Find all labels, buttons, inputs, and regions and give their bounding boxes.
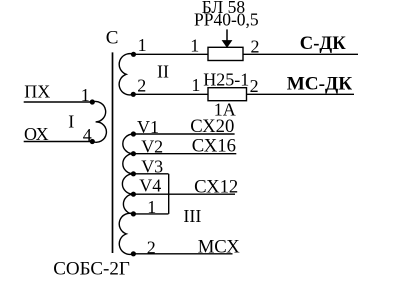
node ОХ-4 xyxy=(90,139,95,144)
svg-text:V2: V2 xyxy=(141,136,163,156)
svg-text:МСХ: МСХ xyxy=(198,237,241,258)
svg-text:2: 2 xyxy=(250,76,259,96)
wire V2 xyxy=(133,153,236,155)
node II-2 xyxy=(131,92,136,97)
svg-text:ПХ: ПХ xyxy=(24,82,50,102)
node V1 xyxy=(131,131,136,136)
svg-text:2: 2 xyxy=(251,36,260,56)
svg-text:Н25-1: Н25-1 xyxy=(203,70,249,90)
wire row1 left xyxy=(134,53,209,55)
svg-text:III: III xyxy=(183,206,201,226)
svg-text:I: I xyxy=(68,111,74,131)
svg-text:V1: V1 xyxy=(137,117,159,137)
node V2 xyxy=(131,151,136,156)
node II-1 xyxy=(131,52,136,57)
svg-text:1: 1 xyxy=(138,35,147,55)
arrow line xyxy=(226,29,228,41)
arrowhead xyxy=(222,40,233,48)
svg-text:СХ20: СХ20 xyxy=(190,116,234,137)
svg-text:1: 1 xyxy=(81,85,90,105)
fuse box БЛ58 xyxy=(208,47,243,60)
wire ОХ xyxy=(24,141,93,143)
svg-text:РР40-0,5: РР40-0,5 xyxy=(194,9,259,29)
wire V1 xyxy=(133,133,234,135)
fuse box Н25-1 xyxy=(208,88,247,101)
svg-text:ОХ: ОХ xyxy=(24,124,49,144)
svg-text:С-ДК: С-ДК xyxy=(300,33,346,54)
svg-text:С: С xyxy=(106,27,119,48)
svg-text:V3: V3 xyxy=(141,156,163,176)
svg-text:СХ12: СХ12 xyxy=(194,176,238,197)
svg-text:2: 2 xyxy=(147,237,156,257)
wire row2 right xyxy=(247,93,355,95)
wire pin2 III МСХ xyxy=(133,253,232,255)
svg-text:4: 4 xyxy=(83,125,92,145)
svg-text:II: II xyxy=(157,62,169,82)
winding I xyxy=(92,102,106,143)
wire ПХ xyxy=(24,101,93,103)
svg-text:V4: V4 xyxy=(139,175,161,195)
svg-text:СХ16: СХ16 xyxy=(192,136,236,157)
node ПХ-1 xyxy=(90,99,95,104)
wire V4 xyxy=(133,193,235,195)
node III-1 xyxy=(131,211,136,216)
jumper vertical V3-1 xyxy=(168,174,170,214)
svg-text:СОБС-2Г: СОБС-2Г xyxy=(53,259,130,280)
svg-text:1: 1 xyxy=(191,75,200,95)
wire pin1 III xyxy=(133,213,168,215)
svg-text:1: 1 xyxy=(147,197,156,217)
svg-text:1: 1 xyxy=(190,35,199,55)
svg-text:2: 2 xyxy=(137,76,146,96)
winding II xyxy=(119,54,133,95)
wire row2 left xyxy=(133,93,208,95)
node V4 xyxy=(131,192,136,197)
winding III xyxy=(119,134,133,254)
node V3 xyxy=(131,171,136,176)
node III-2 xyxy=(131,251,136,256)
svg-text:МС-ДК: МС-ДК xyxy=(287,74,353,95)
wire row1 right xyxy=(243,53,358,55)
core C xyxy=(112,52,114,253)
wire V3 xyxy=(133,173,168,175)
